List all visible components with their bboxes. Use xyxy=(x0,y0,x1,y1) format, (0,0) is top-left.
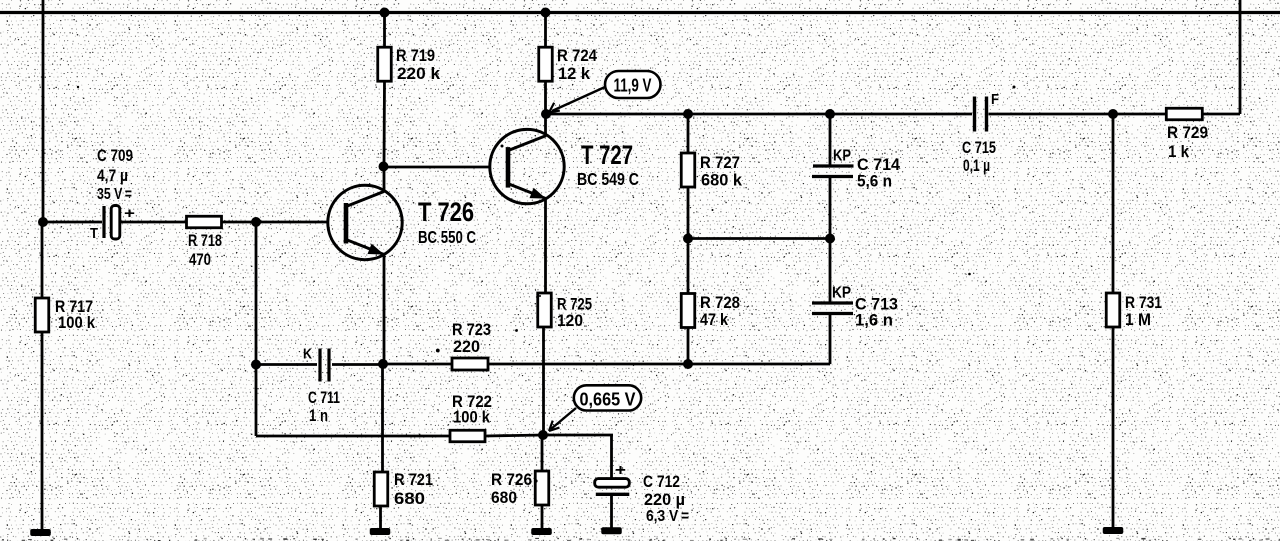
svg-text:T 727: T 727 xyxy=(581,140,633,170)
svg-text:R 723: R 723 xyxy=(452,321,491,339)
svg-text:C 714: C 714 xyxy=(857,156,901,174)
svg-text:F: F xyxy=(991,92,999,108)
svg-text:R 726: R 726 xyxy=(491,471,532,489)
svg-text:470: 470 xyxy=(189,251,211,269)
svg-text:C 711: C 711 xyxy=(308,389,340,407)
svg-text:K: K xyxy=(303,346,312,363)
svg-text:T 726: T 726 xyxy=(418,197,474,227)
svg-text:1 k: 1 k xyxy=(1168,143,1190,161)
svg-text:R 731: R 731 xyxy=(1125,294,1162,312)
svg-text:100 k: 100 k xyxy=(453,409,491,427)
svg-text:220 µ: 220 µ xyxy=(644,491,685,509)
svg-text:R 728: R 728 xyxy=(700,294,740,312)
svg-text:R 727: R 727 xyxy=(700,154,740,172)
svg-text:4,7 µ: 4,7 µ xyxy=(97,167,128,185)
svg-text:T: T xyxy=(90,226,98,242)
svg-text:6,3 V =: 6,3 V = xyxy=(646,508,689,525)
svg-text:C 715: C 715 xyxy=(962,139,996,157)
svg-text:KP: KP xyxy=(833,148,851,165)
svg-text:C 712: C 712 xyxy=(643,473,680,491)
svg-text:220 k: 220 k xyxy=(397,65,441,83)
svg-text:R 719: R 719 xyxy=(396,47,435,65)
svg-text:0,665 V: 0,665 V xyxy=(580,389,637,410)
svg-text:+: + xyxy=(124,205,135,222)
svg-text:R 724: R 724 xyxy=(557,47,598,65)
svg-text:47 k: 47 k xyxy=(700,311,729,329)
svg-text:KP: KP xyxy=(832,285,851,302)
svg-text:1 n: 1 n xyxy=(309,407,328,425)
svg-text:12 k: 12 k xyxy=(558,65,591,83)
svg-text:R 721: R 721 xyxy=(394,471,433,489)
svg-text:BC 550 C: BC 550 C xyxy=(418,227,476,247)
svg-text:C 709: C 709 xyxy=(97,147,133,165)
svg-text:220: 220 xyxy=(453,338,480,356)
svg-text:35 V =: 35 V = xyxy=(97,186,132,203)
svg-text:100 k: 100 k xyxy=(58,314,96,332)
svg-text:R 729: R 729 xyxy=(1167,124,1208,142)
svg-text:1,6 n: 1,6 n xyxy=(855,312,893,330)
svg-text:BC 549 C: BC 549 C xyxy=(577,169,639,189)
svg-text:120: 120 xyxy=(557,312,583,330)
svg-text:11,9 V: 11,9 V xyxy=(614,75,652,96)
svg-text:680: 680 xyxy=(491,489,517,507)
svg-text:R 725: R 725 xyxy=(557,296,592,314)
svg-text:+: + xyxy=(615,462,626,479)
svg-text:680: 680 xyxy=(394,490,425,508)
svg-text:1 M: 1 M xyxy=(1125,311,1151,329)
svg-text:R 718: R 718 xyxy=(188,232,222,250)
svg-text:0,1 µ: 0,1 µ xyxy=(963,157,990,175)
svg-text:680 k: 680 k xyxy=(701,172,743,190)
svg-text:5,6 n: 5,6 n xyxy=(857,173,892,191)
